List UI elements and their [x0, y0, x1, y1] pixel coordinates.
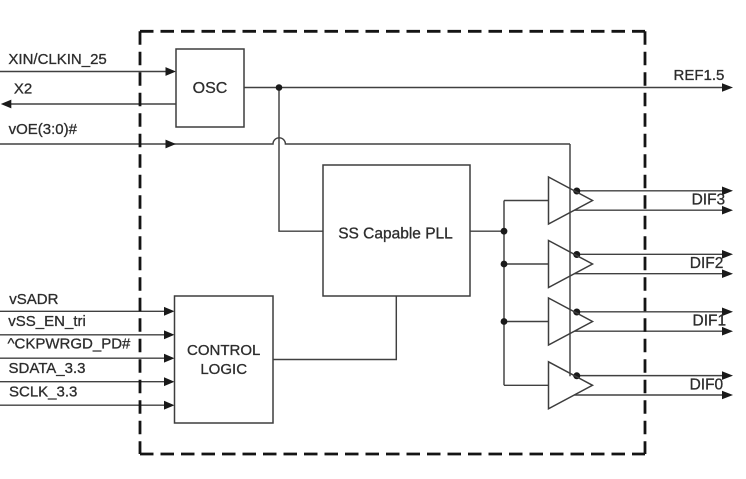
svg-text:OSC: OSC [193, 80, 228, 97]
buffer triangle DIF0 [549, 362, 593, 409]
wire vOE line with hop over vertical [0, 138, 570, 144]
junction dot OSC output [276, 84, 283, 91]
svg-text:SCLK_3.3: SCLK_3.3 [9, 383, 77, 400]
wire DIF1 output pair [573, 311, 724, 313]
svg-text:SS Capable PLL: SS Capable PLL [338, 225, 453, 242]
svg-text:DIF3: DIF3 [692, 192, 726, 209]
svg-text:XIN/CLKIN_25: XIN/CLKIN_25 [8, 51, 106, 68]
svg-text:SDATA_3.3: SDATA_3.3 [9, 360, 86, 377]
wire SCLK input [0, 404, 166, 406]
block CONTROL LOGIC [175, 296, 274, 423]
wire branch to DIF0 buffer [504, 384, 549, 386]
wire XIN input [0, 71, 168, 73]
wire OSC branch down to PLL input [279, 88, 323, 232]
arrow DIF1 plus [722, 308, 733, 317]
wire CONTROL LOGIC output to PLL [273, 296, 396, 360]
arrow DIF1 minus [722, 327, 733, 336]
wire CKPWRGD input [0, 357, 166, 359]
svg-text:vSADR: vSADR [9, 291, 58, 308]
wire branch to DIF2 buffer [504, 263, 549, 265]
wire DIF3 output pair [573, 190, 724, 192]
arrow on vOE line [166, 140, 177, 149]
junction dot buffer DIF1 [573, 309, 580, 316]
buffer triangle DIF3 [549, 177, 593, 224]
wire OSC output to REF1.5 [244, 87, 724, 89]
wire DIF0 output pair [573, 375, 724, 377]
svg-text:CONTROL: CONTROL [187, 342, 260, 359]
svg-text:X2: X2 [14, 81, 32, 98]
svg-text:^CKPWRGD_PD#: ^CKPWRGD_PD# [8, 336, 132, 353]
svg-text:vSS_EN_tri: vSS_EN_tri [8, 313, 86, 330]
arrow vSS_EN_tri [164, 330, 175, 339]
arrow X2 out (left) [1, 100, 12, 109]
wire branch to DIF3 buffer [504, 200, 549, 202]
chip boundary dashed border bottom [140, 453, 645, 456]
buffer triangle DIF2 [549, 241, 593, 288]
arrow DIF0 plus [722, 371, 733, 380]
block OSC [176, 49, 244, 127]
wire X2 output [9, 103, 176, 105]
chip boundary dashed border right [644, 31, 647, 454]
wire SDATA input [0, 381, 166, 383]
wire branch to DIF1 buffer [504, 321, 549, 323]
junction dot DIF2 branch [501, 261, 508, 268]
arrow CKPWRGD [164, 354, 175, 363]
wire clock distribution vertical [503, 201, 505, 386]
svg-text:LOGIC: LOGIC [200, 361, 247, 378]
arrow REF1.5 [722, 83, 733, 92]
wire vSS_EN_tri input [0, 334, 166, 336]
wire PLL output [470, 230, 504, 232]
svg-text:DIF1: DIF1 [693, 313, 727, 330]
chip boundary dashed border top [140, 30, 645, 33]
junction dot DIF1 branch [501, 318, 508, 325]
arrow vSADR [164, 307, 175, 316]
arrow DIF3 minus [722, 206, 733, 215]
buffer triangle DIF1 [549, 298, 593, 345]
junction dot buffer DIF3 [573, 188, 580, 195]
wire vOE enable vertical through buffers [569, 144, 571, 376]
svg-text:DIF0: DIF0 [690, 376, 724, 393]
arrow SCLK [164, 401, 175, 410]
arrow DIF3 plus [722, 187, 733, 196]
junction dot buffer DIF0 [573, 372, 580, 379]
junction dot buffer DIF2 [573, 251, 580, 258]
arrow DIF2 minus [722, 269, 733, 278]
wire DIF2 output pair [573, 253, 724, 255]
wire vSADR input [0, 310, 166, 312]
arrow SDATA [164, 377, 175, 386]
svg-text:DIF2: DIF2 [690, 255, 724, 272]
svg-text:vOE(3:0)#: vOE(3:0)# [9, 121, 78, 138]
junction dot PLL output [501, 228, 508, 235]
svg-text:REF1.5: REF1.5 [674, 67, 725, 84]
arrow DIF0 minus [722, 391, 733, 400]
chip boundary dashed border left [139, 31, 142, 454]
arrow DIF2 plus [722, 250, 733, 259]
block SS Capable PLL [323, 165, 470, 296]
arrow into OSC (XIN) [166, 67, 177, 76]
